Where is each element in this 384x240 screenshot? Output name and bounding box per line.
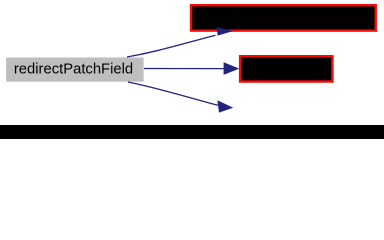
node redirectPatchField (current node, grey fill) [6, 58, 144, 82]
bottom black strip [0, 125, 384, 139]
wire arrow 2 (to middle box) [144, 62, 239, 75]
svg-text:redirectPatchField: redirectPatchField [14, 62, 133, 78]
wire arrow 1 (to top box) [127, 27, 233, 57]
node box middle (red border, black fill) [240, 56, 332, 81]
wire arrow 3 (to bottom node, off-frame) [128, 82, 233, 113]
node box top (red border, black fill) [191, 5, 376, 30]
